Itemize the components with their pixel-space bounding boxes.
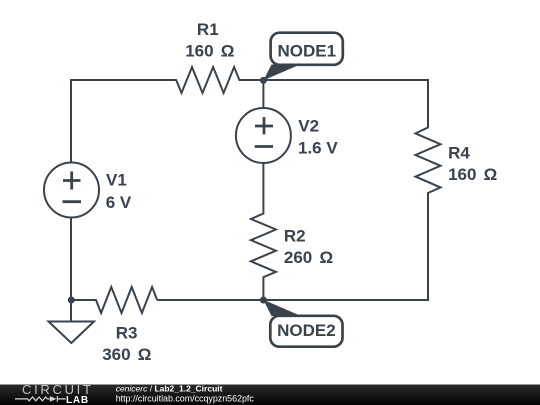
svg-text:160 Ω: 160 Ω xyxy=(185,42,234,61)
svg-text:R4: R4 xyxy=(448,144,470,163)
svg-text:6 V: 6 V xyxy=(106,193,132,212)
svg-text:NODE1: NODE1 xyxy=(278,42,337,61)
svg-text:V1: V1 xyxy=(106,171,127,190)
svg-text:V2: V2 xyxy=(298,117,319,136)
svg-text:360 Ω: 360 Ω xyxy=(102,345,151,364)
svg-text:1.6 V: 1.6 V xyxy=(298,139,338,158)
svg-text:R2: R2 xyxy=(284,227,306,246)
svg-text:cenicerc / Lab2_1.2_Circuit: cenicerc / Lab2_1.2_Circuit xyxy=(116,383,223,393)
svg-text:NODE2: NODE2 xyxy=(277,321,336,340)
svg-text:http://circuitlab.com/ccqypzn5: http://circuitlab.com/ccqypzn562pfc xyxy=(116,394,255,404)
svg-text:260 Ω: 260 Ω xyxy=(284,248,333,267)
svg-text:160 Ω: 160 Ω xyxy=(448,165,497,184)
svg-text:LAB: LAB xyxy=(66,395,89,405)
svg-text:R1: R1 xyxy=(197,20,219,39)
svg-text:R3: R3 xyxy=(116,324,138,343)
